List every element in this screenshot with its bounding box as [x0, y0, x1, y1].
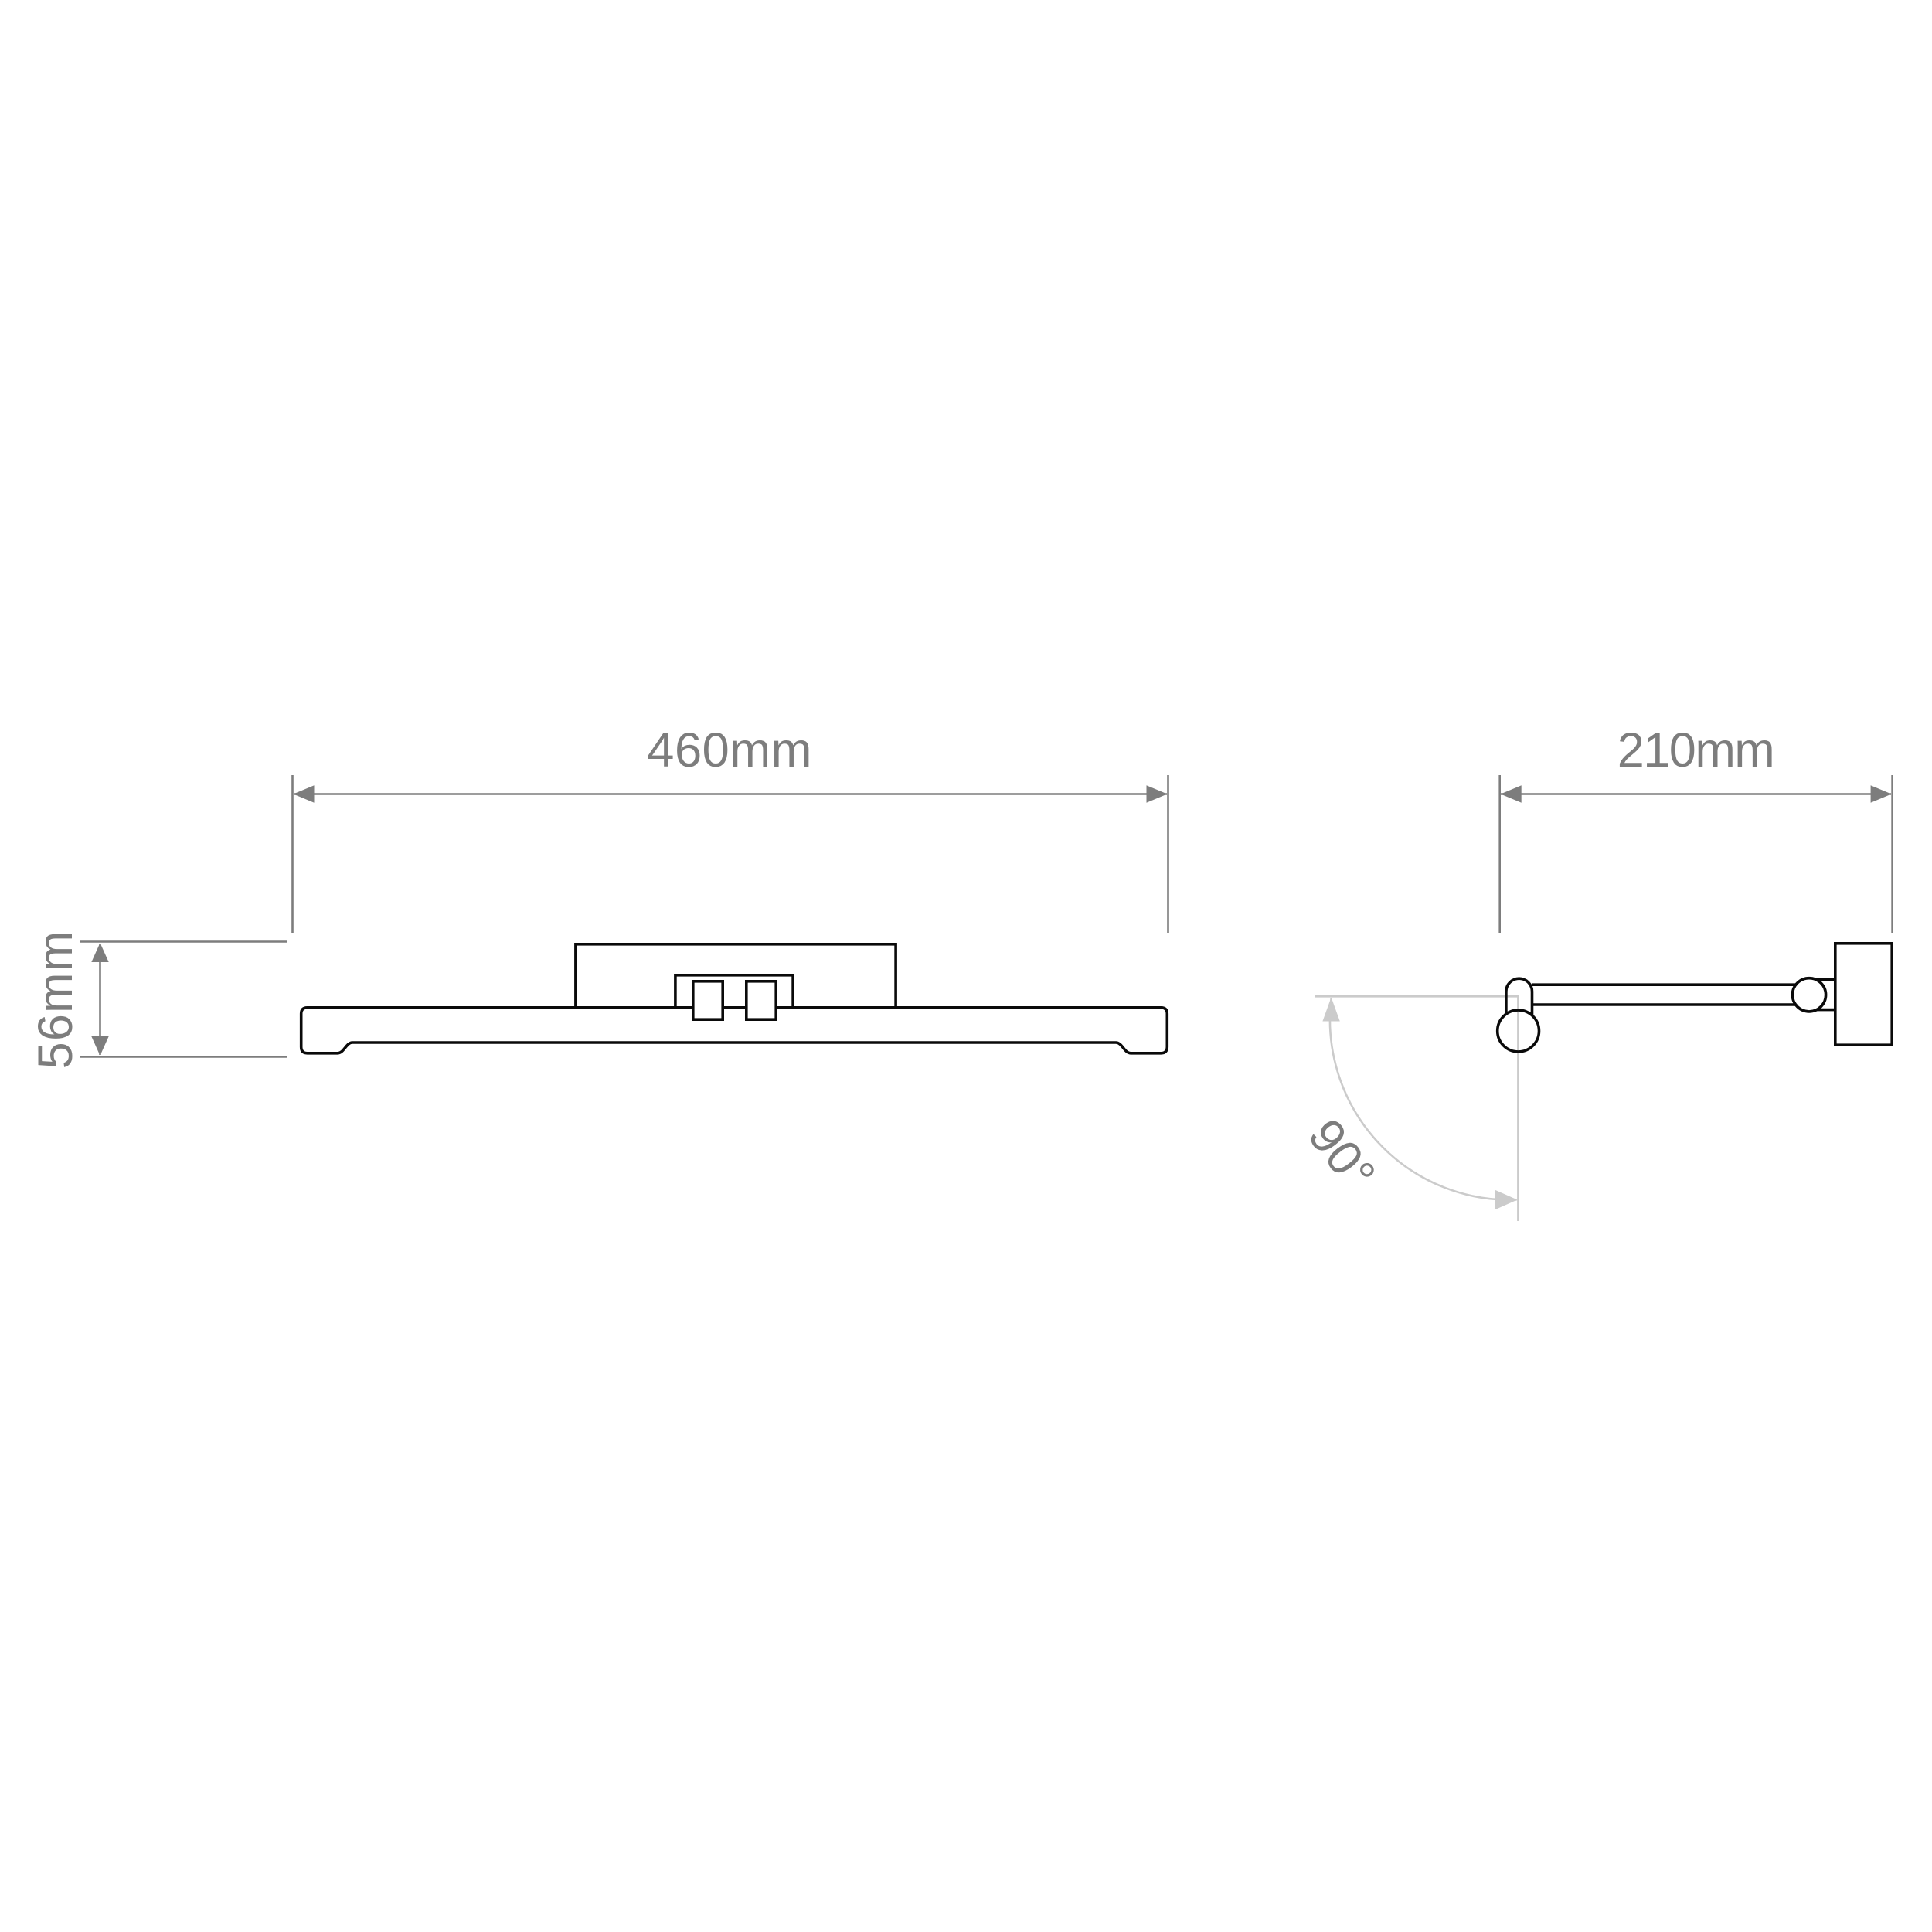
arc right arrowhead: [1495, 1190, 1518, 1210]
210mm dimension line: [1501, 793, 1891, 795]
head ball joint: [1792, 978, 1825, 1012]
56mm bottom extension line: [80, 1056, 287, 1058]
svg-text:56mm: 56mm: [29, 930, 83, 1070]
460mm right arrowhead: [1147, 785, 1168, 802]
wall pivot capsule: [1506, 978, 1532, 1017]
56mm dimension line: [99, 944, 101, 1055]
picture light bar (front elevation): [301, 1008, 1168, 1053]
460mm right extension line: [1167, 775, 1169, 933]
wall bracket inner rectangle: [675, 975, 793, 1008]
lamp head rectangle: [1835, 944, 1892, 1045]
clip square right: [747, 981, 776, 1019]
90 degree arc: [1330, 998, 1517, 1200]
210mm right arrowhead: [1871, 785, 1892, 802]
angle vertical reference line: [1517, 996, 1519, 1221]
gray vertical line segment visible inside wall pivot ball: [1517, 1012, 1519, 1050]
460mm left arrowhead: [294, 785, 315, 802]
56mm down arrowhead: [91, 1036, 108, 1056]
svg-text:460mm: 460mm: [647, 723, 812, 777]
210mm right extension line: [1891, 775, 1893, 933]
neck top line: [1809, 978, 1835, 981]
arm bottom line: [1532, 1003, 1801, 1006]
56mm top extension line: [80, 940, 287, 943]
svg-text:210mm: 210mm: [1617, 723, 1774, 777]
arm top line: [1532, 983, 1801, 986]
210mm left extension line: [1498, 775, 1501, 933]
wall bracket outer rectangle: [576, 944, 896, 1008]
210mm left arrowhead: [1501, 785, 1522, 802]
56mm up arrowhead: [91, 943, 108, 962]
angle horizontal reference line: [1315, 995, 1519, 998]
460mm left extension line: [291, 775, 294, 933]
wall pivot ball: [1498, 1010, 1539, 1052]
arc up arrowhead: [1322, 998, 1339, 1022]
clip square left: [693, 981, 723, 1019]
460mm dimension line: [294, 793, 1167, 795]
neck bottom line: [1809, 1009, 1835, 1012]
